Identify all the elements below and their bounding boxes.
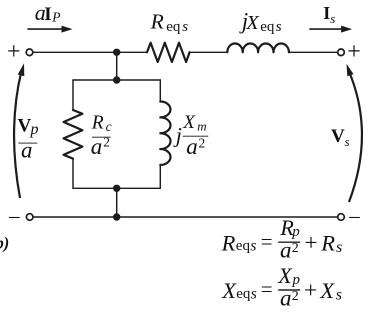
svg-text:a: a [21,138,33,163]
svg-text:a: a [280,238,292,263]
label Vs [331,126,350,149]
svg-text:–: – [8,203,20,227]
svg-text:2: 2 [292,241,299,256]
svg-text:V: V [331,126,345,147]
equation Xeqs = Xp/a2 + Xs [221,263,342,311]
svg-text:b): b) [0,234,9,253]
label Rc/a2 fraction [91,113,112,159]
svg-text:I: I [44,4,51,25]
wire top-left segment [33,51,147,53]
wire right branch upper [159,80,161,102]
wire bottom [33,216,338,218]
current arrow Is [309,26,352,33]
svg-text:X: X [277,263,293,288]
wire shunt stub bottom [116,188,118,217]
svg-text:p: p [291,224,300,240]
label Vp/a fraction [18,115,39,162]
svg-text:s: s [251,285,257,302]
svg-text:R: R [221,230,236,255]
svg-text:X: X [245,12,260,34]
wire left branch lower [72,159,74,189]
svg-text:s: s [336,287,342,304]
svg-text:=: = [261,229,273,253]
svg-text:X: X [182,112,196,133]
label jXm/a2 fraction [173,112,209,159]
wire right branch lower [159,165,161,188]
svg-text:+: + [304,230,317,256]
svg-text:R: R [91,113,104,134]
label jXeqs [239,9,282,35]
wire shunt stub top [116,52,118,80]
label Reqs [150,10,189,35]
label aIp [35,0,61,25]
voltage arrow Vp/a [14,63,24,198]
svg-text:a: a [280,285,292,310]
terminal circle bottom-left [26,214,33,221]
svg-text:j: j [173,123,182,148]
inductor jXeqs [227,43,289,52]
wire inductor to right terminal [289,51,338,53]
svg-text:s: s [276,19,282,35]
svg-text:P: P [51,10,60,25]
junction dot at top node [113,49,120,56]
svg-text:s: s [250,238,256,255]
svg-text:2: 2 [199,135,206,150]
svg-text:a: a [91,134,103,159]
junction dot bottom node [113,213,120,220]
svg-text:2: 2 [292,289,299,304]
svg-text:s: s [345,134,350,149]
svg-text:eq: eq [236,286,251,302]
resistor Reqs [147,43,190,62]
terminal circle bottom-right [338,214,345,221]
svg-text:eq: eq [260,19,275,35]
svg-text:X: X [319,278,335,303]
resistor Rc/a2 [64,110,83,159]
inductor jXm/a2 [160,102,170,165]
svg-text:+: + [7,39,21,65]
equation Reqs = Rp/a2 + Rs [221,215,343,263]
junction dot shunt bottom [113,185,120,192]
voltage arrow Vs [347,64,362,202]
svg-text:m: m [197,118,206,133]
svg-text:R: R [150,10,164,34]
wire left branch upper [72,80,74,110]
terminal circle top-left [26,49,33,56]
wire shunt top bar [73,79,160,81]
junction dot shunt top [113,76,120,83]
wire shunt bottom bar [73,187,160,189]
svg-text:+: + [304,278,317,304]
svg-text:eq: eq [236,238,251,254]
svg-text:s: s [336,239,342,256]
label Is [323,3,335,26]
wire between Reqs and jXeqs [190,51,228,53]
svg-text:+: + [347,39,361,65]
svg-text:s: s [182,19,188,35]
svg-text:=: = [261,277,273,301]
svg-text:–: – [348,203,360,227]
svg-text:R: R [320,230,335,255]
svg-text:2: 2 [103,135,110,150]
current arrow aIp [27,26,72,33]
terminal circle top-right [338,49,345,56]
svg-text:c: c [106,119,112,134]
svg-text:eq: eq [166,19,181,35]
svg-text:X: X [221,278,237,303]
svg-text:p: p [30,121,39,138]
svg-text:p: p [292,272,301,288]
svg-text:V: V [18,115,32,136]
svg-text:a: a [186,134,198,159]
svg-text:s: s [330,11,335,26]
